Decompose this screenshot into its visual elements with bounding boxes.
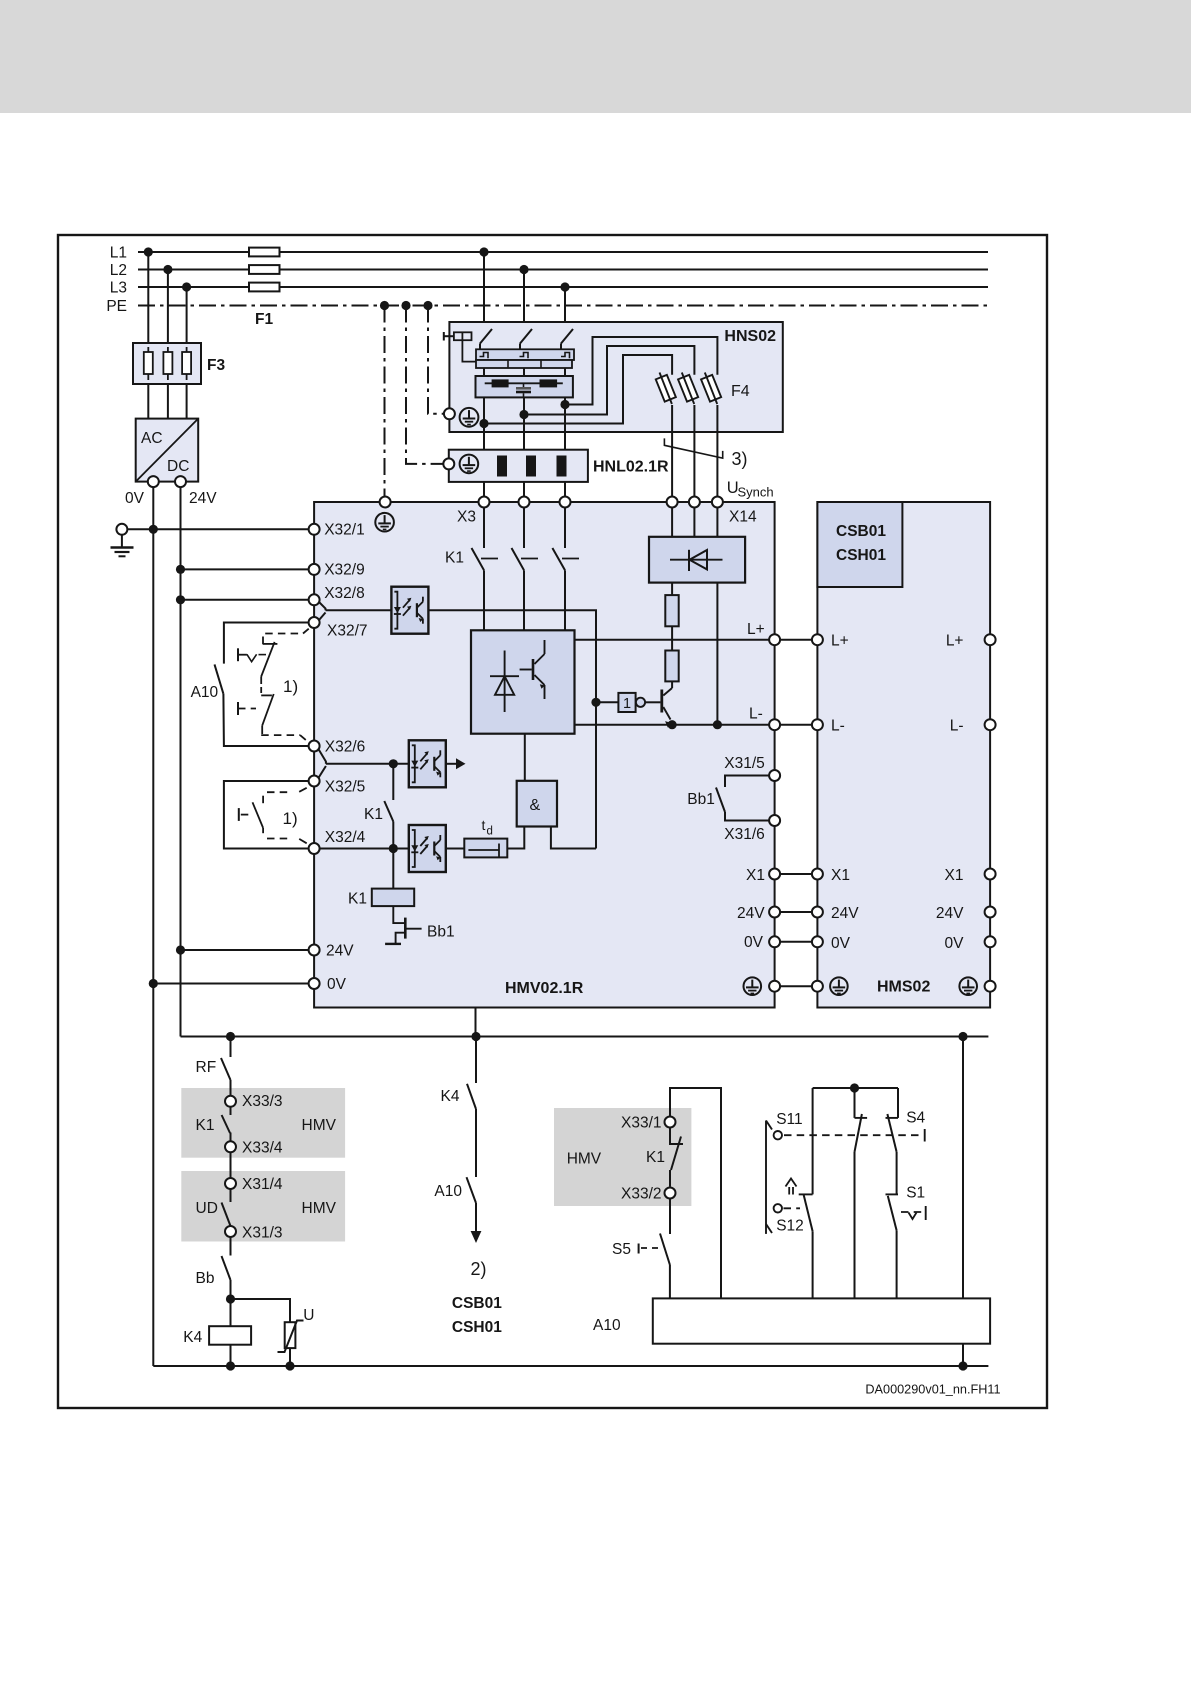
svg-text:X31/3: X31/3 <box>242 1225 283 1242</box>
wire 24V to X32/8 <box>181 599 309 601</box>
contactor blades in HNS02 <box>480 329 492 344</box>
wire L- bus <box>575 724 770 726</box>
relay coil K1 <box>372 889 414 907</box>
wires HMV to HMS02 <box>780 639 812 641</box>
terminal X32/4 <box>309 843 320 854</box>
terminal 0V of HMV <box>769 936 780 947</box>
wires filter outputs <box>483 397 485 449</box>
mechanical dashes S12 <box>784 1207 801 1209</box>
varistor U <box>285 1322 296 1348</box>
svg-text:CSB01: CSB01 <box>836 523 886 540</box>
terminal X31/3 <box>225 1226 236 1237</box>
join X32/6 X32/5 <box>319 750 326 764</box>
fuses F4 <box>656 375 676 402</box>
contact Bb <box>230 1237 232 1256</box>
wire diode block right leg <box>716 583 718 725</box>
terminal X32/8 <box>309 594 320 605</box>
svg-text:F1: F1 <box>255 311 273 328</box>
PE terminal of HNL02.1R <box>443 458 454 469</box>
wire ground to X32/1 <box>127 528 308 530</box>
svg-text:X31/6: X31/6 <box>724 826 765 843</box>
svg-text:HMV02.1R: HMV02.1R <box>505 980 584 997</box>
svg-text:L2: L2 <box>110 262 127 279</box>
earth symbol in HMV top <box>375 513 394 532</box>
svg-text:A10: A10 <box>434 1183 462 1200</box>
svg-text:L+: L+ <box>747 621 765 638</box>
drawing frame <box>58 235 1047 1408</box>
wires F4 to X14 <box>671 405 673 497</box>
terminal X32/7 <box>309 617 320 628</box>
delay element td <box>464 839 507 858</box>
terminal X1 of HMS02 left <box>812 869 823 880</box>
wire L2 to HNS02 <box>523 270 525 329</box>
svg-text:K4: K4 <box>183 1329 202 1346</box>
contact A10 branch <box>467 1177 477 1203</box>
Bb1 driver transistor <box>393 906 404 923</box>
earth symbol in HNS02 <box>460 408 479 427</box>
svg-text:U: U <box>303 1307 314 1324</box>
wire X32/4 to K1 coil <box>392 849 394 889</box>
svg-text:HNS02: HNS02 <box>724 328 776 345</box>
svg-text:Bb1: Bb1 <box>687 791 715 808</box>
PE drop to HMV <box>384 306 386 497</box>
wire optocoupler 1 output <box>428 610 596 848</box>
terminal L- of HMS02 left <box>812 719 823 730</box>
0V return wire bottom <box>153 1365 988 1367</box>
svg-text:S5: S5 <box>612 1241 631 1258</box>
svg-text:HMV: HMV <box>302 1200 337 1217</box>
wires rows to filter <box>483 368 485 376</box>
svg-text:K1: K1 <box>348 891 367 908</box>
terminal X32/9 <box>309 564 320 575</box>
svg-text:F3: F3 <box>207 357 225 374</box>
svg-text:X3: X3 <box>457 509 476 526</box>
svg-text:Synch: Synch <box>738 485 774 500</box>
PE drop to HNL02.1R <box>406 306 443 464</box>
terminal L- of HMV <box>769 719 780 730</box>
wire 24V to HMV 24V input <box>181 949 309 951</box>
terminal X32/6 <box>309 741 320 752</box>
wires HNL02.1R to X3 <box>483 482 485 497</box>
svg-text:F4: F4 <box>731 383 750 400</box>
safety contact box A10 lower <box>224 781 309 849</box>
wire L+ bus <box>575 639 770 641</box>
svg-text:S4: S4 <box>906 1110 925 1127</box>
svg-text:PE: PE <box>106 298 127 315</box>
svg-text:3): 3) <box>732 449 748 469</box>
terminal X31/5 <box>769 770 780 781</box>
svg-text:L+: L+ <box>946 633 964 650</box>
wire to optocoupler 2 <box>326 763 409 765</box>
svg-text:X33/3: X33/3 <box>242 1093 283 1110</box>
svg-text:1): 1) <box>283 809 298 828</box>
optocoupler U2 <box>409 740 446 787</box>
terminal X1 of HMV <box>769 869 780 880</box>
svg-text:d: d <box>487 826 493 838</box>
safety module A10 <box>653 1298 990 1343</box>
svg-text:L3: L3 <box>110 280 127 297</box>
gray box HMV K1 middle <box>554 1108 691 1206</box>
svg-text:AC: AC <box>141 430 163 447</box>
svg-text:A10: A10 <box>593 1317 621 1334</box>
terminal 24V input <box>309 945 320 956</box>
resistor R1 <box>665 595 678 626</box>
terminal X32/1 <box>309 524 320 535</box>
svg-text:HNL02.1R: HNL02.1R <box>593 459 669 476</box>
arrow to CSB01 <box>471 1231 482 1243</box>
contact K1 middle <box>670 1128 683 1145</box>
IGBT symbol <box>532 659 535 680</box>
svg-text:L-: L- <box>749 706 763 723</box>
power supply AC/DC <box>136 419 199 482</box>
junction dots on phase drops <box>479 247 488 256</box>
svg-text:X1: X1 <box>746 867 765 884</box>
svg-text:24V: 24V <box>831 905 859 922</box>
wire HMV bottom to 24V wire <box>475 1008 477 1037</box>
terminal L+ of HMS02 left <box>812 634 823 645</box>
svg-text:A10: A10 <box>191 684 219 701</box>
svg-text:X32/1: X32/1 <box>324 522 365 539</box>
AND gate <box>517 781 557 827</box>
svg-text:0V: 0V <box>744 934 764 951</box>
terminal L+ of HMS02 right <box>985 634 996 645</box>
svg-text:&: & <box>530 797 541 814</box>
wires X14 to diode block <box>671 508 673 537</box>
svg-text:K4: K4 <box>441 1088 460 1105</box>
forced contact in A10 lower box <box>267 791 292 793</box>
earth symbol HMS02 left <box>830 977 848 995</box>
svg-text:DC: DC <box>167 458 189 475</box>
PE terminal of HNS02 <box>444 408 455 419</box>
coil row of HNS02 filter <box>476 349 574 360</box>
mains choke HNL02.1R <box>449 450 588 482</box>
fuse block F3 <box>133 343 201 384</box>
manual actuator of HNS02 <box>443 332 445 341</box>
wire route to fuse F4-2 <box>524 346 694 415</box>
forced contact upper in A10 box <box>263 634 303 645</box>
svg-text:0V: 0V <box>327 976 347 993</box>
resistor R2 <box>665 651 678 682</box>
svg-text:Bb1: Bb1 <box>427 924 455 941</box>
relay coil K4 <box>209 1326 251 1345</box>
terminal 0V input <box>309 978 320 989</box>
fuse F1 <box>249 248 280 257</box>
terminal 0V of HMS02 right <box>985 936 996 947</box>
arrow up symbol <box>786 1179 797 1187</box>
contact S4 <box>897 1088 899 1118</box>
svg-text:L+: L+ <box>831 633 849 650</box>
terminal 24V of HMS02 right <box>985 907 996 918</box>
wire L1 to HNS02 <box>483 252 485 329</box>
terminal X1 of HMS02 right <box>985 869 996 880</box>
terminal X32/5 <box>309 776 320 787</box>
PE terminal on HMV top <box>380 497 391 508</box>
svg-text:X32/9: X32/9 <box>324 562 365 579</box>
svg-text:HMV: HMV <box>302 1117 337 1134</box>
svg-text:t: t <box>482 817 486 833</box>
wire to optocoupler 1 <box>326 609 392 611</box>
svg-text:X14: X14 <box>729 509 757 526</box>
terminal X3 <box>479 497 490 508</box>
control section CSB01 CSH01 <box>817 502 902 587</box>
terminal X33/4 <box>225 1141 236 1152</box>
wire route to fuse F4-1 <box>484 355 672 424</box>
svg-text:X33/2: X33/2 <box>621 1186 662 1203</box>
net PE <box>138 305 988 307</box>
svg-text:0V: 0V <box>945 935 965 952</box>
svg-text:X32/5: X32/5 <box>325 779 366 796</box>
choke bars <box>497 456 507 477</box>
svg-text:K1: K1 <box>646 1149 665 1166</box>
terminal X31/6 <box>769 815 780 826</box>
contact UD <box>230 1189 232 1202</box>
wire X33/1 loop <box>670 1088 721 1298</box>
svg-text:0V: 0V <box>831 935 851 952</box>
contact S5 <box>669 1199 671 1235</box>
wire diode block to resistor <box>671 583 673 596</box>
gray box UD HMV <box>181 1171 345 1242</box>
wire X32/4 to optocoupler 3 <box>320 848 409 850</box>
svg-text:24V: 24V <box>936 905 964 922</box>
supply unit HMV02.1R <box>314 502 774 1008</box>
svg-text:S12: S12 <box>776 1218 804 1235</box>
terminal X31/4 <box>230 1152 232 1178</box>
junction dots on L1 L2 L3 <box>144 247 153 256</box>
note 3 leader <box>664 438 722 458</box>
contact K1 aux <box>392 764 394 800</box>
svg-text:X1: X1 <box>945 867 964 884</box>
wire right branch <box>962 1037 964 1299</box>
diode block <box>649 537 745 583</box>
svg-text:X1: X1 <box>831 867 850 884</box>
ground <box>116 524 127 535</box>
wire 24V to X32/9 <box>181 568 309 570</box>
AND gate right input <box>551 827 596 849</box>
svg-text:X32/8: X32/8 <box>324 585 365 602</box>
contact S12 branch <box>812 1088 814 1194</box>
filter block in HNS02 <box>476 376 573 397</box>
svg-text:1): 1) <box>283 677 298 696</box>
earth symbol in HNL02.1R <box>460 455 479 474</box>
svg-text:CSH01: CSH01 <box>836 547 886 564</box>
0V rail <box>152 487 154 1366</box>
terminal PE of HMV right <box>769 981 780 992</box>
svg-text:K1: K1 <box>364 806 383 823</box>
svg-text:X31/5: X31/5 <box>724 755 765 772</box>
wire td to AND gate <box>507 827 524 849</box>
contact K4 branch <box>475 1037 477 1084</box>
earth symbol HMS02 right <box>959 977 977 995</box>
wire route to fuse F4-3 <box>565 337 717 405</box>
svg-text:S11: S11 <box>776 1111 802 1128</box>
contact S1 <box>886 1193 899 1195</box>
AND gate output wire <box>524 734 526 781</box>
wire to K4 coil <box>230 1280 232 1326</box>
diode symbol <box>670 559 723 561</box>
contact RF <box>230 1037 232 1058</box>
optocoupler U3 <box>409 825 446 872</box>
wire gate output to base <box>645 701 660 703</box>
terminal X33/3 <box>230 1080 232 1096</box>
wires F3 to power supply <box>147 384 149 419</box>
svg-text:CSH01: CSH01 <box>452 1319 502 1336</box>
contact K1 of HMV <box>230 1107 232 1115</box>
terminal X33/2 <box>665 1188 676 1199</box>
svg-text:L-: L- <box>950 718 964 735</box>
junction dots on PE <box>380 301 389 310</box>
24V distribution wire <box>181 1036 989 1038</box>
svg-text:X33/1: X33/1 <box>621 1115 662 1132</box>
wires L1 L2 L3 to F3 <box>147 252 149 343</box>
svg-text:X32/7: X32/7 <box>327 623 368 640</box>
forced contact lower in A10 box <box>261 694 272 696</box>
svg-text:24V: 24V <box>737 905 765 922</box>
svg-text:Bb: Bb <box>196 1270 215 1287</box>
gray box K1 HMV <box>181 1088 345 1158</box>
earth symbol HMV right <box>744 977 762 995</box>
svg-text:HMS02: HMS02 <box>877 979 930 996</box>
PE drop to HNS02 <box>428 306 444 414</box>
terminal 24V of HMV <box>769 907 780 918</box>
svg-text:2): 2) <box>471 1259 487 1279</box>
wire to varistor <box>231 1299 291 1322</box>
optocoupler U1 <box>391 587 428 634</box>
wires X3 through contactor K1 <box>483 508 485 549</box>
net L1 <box>138 251 988 253</box>
svg-text:X33/4: X33/4 <box>242 1140 283 1157</box>
svg-text:UD: UD <box>196 1200 218 1217</box>
wire 0V to HMV 0V input <box>153 983 308 985</box>
net L3 <box>138 286 988 288</box>
terminal 24V of HMS02 left <box>812 907 823 918</box>
second row of HNS02 filter <box>476 360 572 368</box>
svg-text:X32/6: X32/6 <box>325 739 366 756</box>
svg-text:RF: RF <box>196 1059 217 1076</box>
svg-text:S1: S1 <box>906 1185 925 1202</box>
manual actuator S1 <box>901 1211 922 1213</box>
terminal PE of HMS02 right <box>985 981 996 992</box>
terminal L+ of HMV <box>769 634 780 645</box>
svg-text:24V: 24V <box>326 943 354 960</box>
svg-text:L1: L1 <box>110 245 127 262</box>
wire top of S branch <box>813 1087 898 1089</box>
svg-text:X32/4: X32/4 <box>325 829 366 846</box>
safety contact box A10 upper <box>224 623 309 664</box>
terminal 0V of HMS02 left <box>812 936 823 947</box>
join X32/8 X32/7 <box>319 602 326 611</box>
rectifier block <box>471 630 575 733</box>
svg-text:K1: K1 <box>445 550 464 567</box>
wire L3 to HNS02 <box>564 287 566 329</box>
wire resistor to transistor <box>671 681 673 688</box>
svg-text:CSB01: CSB01 <box>452 1295 502 1312</box>
inverter gate 1 <box>618 693 635 712</box>
svg-text:L-: L- <box>831 718 845 735</box>
thyristor symbol <box>504 651 506 713</box>
net L2 <box>138 269 988 271</box>
svg-text:1: 1 <box>623 696 631 712</box>
mechanical link S11 S12 <box>765 1121 767 1234</box>
terminal X33/1 <box>665 1117 676 1128</box>
svg-text:DA000290v01_nn.FH11: DA000290v01_nn.FH11 <box>865 1382 1000 1396</box>
svg-text:K1: K1 <box>196 1117 215 1134</box>
pivot S12 <box>774 1204 782 1212</box>
header band <box>0 0 1191 113</box>
chopper transistor Q1 <box>663 688 672 696</box>
svg-text:0V: 0V <box>125 490 145 507</box>
mains switch module HNS02 <box>449 322 782 432</box>
contact Bb1 <box>725 776 769 788</box>
wire to delay element <box>446 848 464 850</box>
pivot S11 <box>774 1131 782 1139</box>
wire gate input <box>596 701 618 703</box>
mechanical dashes S11 to S4 <box>784 1134 920 1136</box>
svg-text:X31/4: X31/4 <box>242 1176 283 1193</box>
svg-text:24V: 24V <box>189 490 217 507</box>
motor inverter HMS02 <box>817 502 990 1008</box>
terminal L- of HMS02 right <box>985 719 996 730</box>
contact S11 branch <box>854 1088 856 1118</box>
24V rail <box>180 487 182 1036</box>
svg-text:HMV: HMV <box>567 1151 602 1168</box>
wire between resistors <box>671 626 673 650</box>
terminal X14 <box>667 497 678 508</box>
terminal PE of HMS02 left <box>812 981 823 992</box>
arrow output of optocoupler 2 <box>446 763 456 765</box>
